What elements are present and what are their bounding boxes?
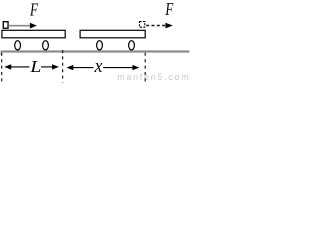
label L	[29, 57, 41, 75]
cart 2 dashed pull block	[140, 22, 145, 28]
dimension L left arrow	[4, 64, 29, 69]
dimension x right arrow	[103, 65, 139, 70]
label F (cart 1)	[29, 1, 38, 21]
cart 2 left wheel	[97, 41, 103, 50]
svg-text:manfen5.com: manfen5.com	[117, 72, 190, 82]
svg-text:L: L	[29, 57, 41, 75]
cart 1 right wheel	[43, 41, 49, 50]
svg-text:x: x	[94, 55, 103, 76]
cart 1 plank	[2, 30, 65, 38]
dashed force arrow F on cart 2	[146, 23, 173, 29]
cart 1 left wheel	[15, 41, 21, 50]
dashed reference line right	[144, 53, 146, 83]
ground	[1, 50, 190, 55]
cart 2 right wheel	[129, 41, 135, 50]
svg-text:F: F	[29, 1, 38, 21]
dimension x left arrow	[66, 65, 93, 70]
cart 1 pull block	[3, 22, 8, 29]
svg-text:F: F	[165, 0, 174, 20]
label x	[94, 55, 103, 76]
watermark manfen5.com	[117, 72, 190, 82]
dimension L right arrow	[41, 64, 59, 69]
dashed reference line left	[1, 53, 3, 83]
force arrow F on cart 1	[8, 23, 37, 29]
label F (cart 2)	[165, 0, 174, 20]
cart 2 plank	[80, 30, 145, 38]
dashed reference line middle	[62, 50, 64, 83]
